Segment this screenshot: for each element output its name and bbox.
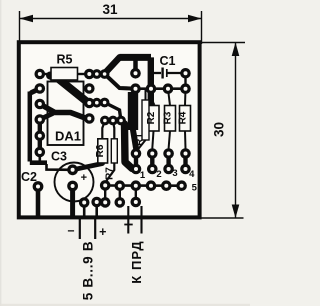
svg-text:5 В...9 В: 5 В...9 В: [81, 241, 96, 301]
svg-text:+: +: [99, 225, 106, 239]
svg-text:R6: R6: [95, 144, 106, 157]
svg-text:К ПРД: К ПРД: [129, 240, 144, 284]
svg-text:3: 3: [172, 168, 177, 179]
svg-text:5: 5: [192, 183, 198, 194]
svg-text:R4: R4: [177, 111, 188, 124]
svg-text:C3: C3: [51, 150, 67, 164]
svg-text:R2: R2: [146, 111, 157, 124]
svg-text:C2: C2: [21, 170, 37, 184]
svg-text:4: 4: [189, 169, 195, 180]
svg-text:2: 2: [156, 169, 161, 180]
svg-text:R3: R3: [162, 111, 173, 124]
svg-text:C1: C1: [160, 54, 176, 68]
svg-text:1: 1: [140, 170, 146, 181]
svg-text:31: 31: [102, 2, 118, 17]
svg-text:DA1: DA1: [55, 129, 81, 144]
svg-text:–: –: [68, 224, 75, 238]
svg-text:R7: R7: [104, 167, 115, 180]
svg-text:R1: R1: [134, 133, 145, 146]
svg-text:R5: R5: [57, 53, 73, 67]
svg-text:30: 30: [212, 122, 227, 137]
svg-text:+: +: [81, 172, 87, 184]
